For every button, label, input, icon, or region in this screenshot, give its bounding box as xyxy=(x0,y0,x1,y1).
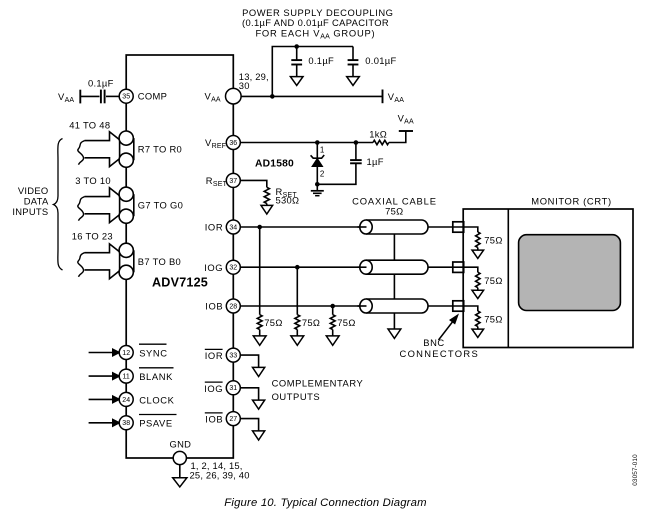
svg-text:DATA: DATA xyxy=(24,196,49,207)
svg-text:OUTPUTS: OUTPUTS xyxy=(272,391,321,402)
wire xyxy=(240,180,266,187)
resistor 75 ohm shunt xyxy=(330,315,355,330)
svg-text:SYNC: SYNC xyxy=(139,347,167,358)
svg-text:75Ω: 75Ω xyxy=(302,317,320,328)
node input arrow (PSAVE) xyxy=(89,419,120,426)
ground (shunt) xyxy=(332,330,334,336)
wire riser to decoupling rail xyxy=(272,47,353,97)
coax cable W2 xyxy=(358,260,429,274)
node complementary output arrow xyxy=(253,400,265,409)
svg-text:32: 32 xyxy=(229,265,237,272)
svg-text:30: 30 xyxy=(239,80,250,91)
svg-text:1µF: 1µF xyxy=(367,156,384,167)
BNC connector J2 xyxy=(453,262,464,272)
wire IOB line xyxy=(240,304,477,309)
wire (75 ohm shunt branch) xyxy=(296,267,298,315)
pin 36 VREF xyxy=(205,136,240,150)
node bus arrow 3 TO 10 xyxy=(75,175,131,223)
svg-text:COMPLEMENTARY: COMPLEMENTARY xyxy=(272,378,364,389)
svg-text:AD1580: AD1580 xyxy=(255,159,294,170)
svg-text:24: 24 xyxy=(122,397,130,404)
diode D1 AD1580 zener xyxy=(255,143,325,185)
svg-text:0.01µF: 0.01µF xyxy=(365,55,396,66)
svg-text:36: 36 xyxy=(229,140,237,147)
ground (shunt) xyxy=(296,330,298,336)
svg-text:INPUTS: INPUTS xyxy=(12,206,48,217)
svg-text:03057-010: 03057-010 xyxy=(632,454,639,486)
node VAA terminal (COMP side) xyxy=(58,90,80,104)
svg-text:IOB: IOB xyxy=(205,301,223,312)
svg-text:1kΩ: 1kΩ xyxy=(369,128,387,139)
BNC connector J1 xyxy=(453,222,464,232)
svg-text:ADV7125: ADV7125 xyxy=(152,276,208,290)
svg-text:35: 35 xyxy=(122,94,130,101)
svg-text:2: 2 xyxy=(320,169,325,178)
node VAA terminal (rail) xyxy=(383,90,405,104)
pin 27 IOBbar xyxy=(205,412,241,426)
svg-text:0.1µF: 0.1µF xyxy=(88,77,114,88)
wire (75 ohm shunt branch) xyxy=(259,227,261,315)
wire (75 ohm shunt branch) xyxy=(332,306,334,315)
wire xyxy=(106,95,119,97)
label video data inputs xyxy=(12,185,49,217)
svg-text:34: 34 xyxy=(229,224,237,231)
capacitor C4 1uF xyxy=(350,143,384,167)
svg-text:27: 27 xyxy=(229,416,237,423)
svg-text:75Ω: 75Ω xyxy=(385,206,403,217)
pin 32 IOG xyxy=(204,260,240,274)
svg-text:28: 28 xyxy=(229,303,237,310)
note: power supply decoupling text xyxy=(242,7,394,41)
svg-text:G7 TO G0: G7 TO G0 xyxy=(138,200,183,211)
svg-text:11: 11 xyxy=(123,374,130,381)
svg-text:75Ω: 75Ω xyxy=(484,275,502,286)
coax cable W3 xyxy=(358,299,429,313)
wire (complementary out) xyxy=(240,355,258,367)
label complementary outputs xyxy=(272,378,364,402)
ground (0.01uF) xyxy=(347,77,360,86)
resistor 75 ohm termination xyxy=(476,232,503,247)
wire coax shield xyxy=(393,234,395,329)
capacitor C1 0.1uF (COMP) xyxy=(88,77,114,103)
ground (shunt) xyxy=(259,330,261,336)
svg-text:Figure 10. Typical Connection: Figure 10. Typical Connection Diagram xyxy=(224,497,426,509)
coax cable W1 xyxy=(358,220,429,234)
node bus arrow 16 TO 23 xyxy=(72,231,132,279)
wire VAA rail xyxy=(241,94,382,99)
pin 11 BLANK xyxy=(119,368,173,383)
BNC connector J3 xyxy=(453,301,464,311)
wire (monitor input) xyxy=(464,306,478,311)
wire (complementary out) xyxy=(240,388,258,400)
svg-text:IOG: IOG xyxy=(204,262,223,273)
pin 24 CLOCK xyxy=(119,392,174,406)
resistor RSET 530 ohm xyxy=(264,186,299,206)
svg-text:IOR: IOR xyxy=(205,350,223,361)
brace (video inputs) xyxy=(54,139,63,271)
svg-text:IOR: IOR xyxy=(205,222,223,233)
svg-text:530Ω: 530Ω xyxy=(276,195,300,206)
svg-text:75Ω: 75Ω xyxy=(484,235,502,246)
node input arrow (SYNC) xyxy=(89,349,120,356)
label BNC connectors with arrow xyxy=(400,315,480,360)
svg-text:1: 1 xyxy=(320,146,325,155)
svg-text:PSAVE: PSAVE xyxy=(139,418,173,429)
svg-text:75Ω: 75Ω xyxy=(264,317,282,328)
wire (complementary out) xyxy=(240,419,258,431)
node VAA terminal (1k) xyxy=(398,112,414,131)
ground (termination) xyxy=(477,288,479,291)
svg-text:33: 33 xyxy=(229,353,237,360)
node complementary output arrow xyxy=(253,367,265,376)
pin 31 IOGbar xyxy=(204,381,240,395)
pin 33 IORbar xyxy=(205,348,241,362)
capacitor C3 0.01uF decoupling xyxy=(348,47,397,77)
resistor 75 ohm termination xyxy=(476,311,503,327)
svg-text:IOB: IOB xyxy=(205,414,223,425)
node input arrow (CLOCK) xyxy=(89,396,120,403)
node input arrow (BLANK) xyxy=(89,372,120,379)
label coaxial cable xyxy=(352,196,437,217)
resistor 1k ohm xyxy=(369,128,389,144)
pin GND (1,2,14,15,25,26,39,40) xyxy=(170,439,250,481)
node bus arrow 41 TO 48 xyxy=(69,119,131,166)
svg-text:MONITOR (CRT): MONITOR (CRT) xyxy=(531,196,612,207)
svg-text:CONNECTORS: CONNECTORS xyxy=(400,348,480,359)
resistor 75 ohm termination xyxy=(476,272,503,288)
CRT screen xyxy=(519,235,621,311)
svg-text:VIDEO: VIDEO xyxy=(18,185,49,196)
wire IOG line xyxy=(240,265,477,270)
ground (termination) xyxy=(477,248,479,251)
node pin-group B7 TO B0 xyxy=(119,243,181,279)
svg-text:38: 38 xyxy=(122,420,130,427)
wire IOR line xyxy=(240,225,477,230)
pin 12 SYNC xyxy=(119,344,167,359)
svg-text:BLANK: BLANK xyxy=(139,371,173,382)
pin VAA (13,29,30) xyxy=(205,71,269,104)
ground (termination) xyxy=(477,327,479,330)
pin 37 RSET xyxy=(206,173,241,187)
wire to VAA terminal xyxy=(389,131,406,143)
svg-text:25, 26, 39, 40: 25, 26, 39, 40 xyxy=(190,469,250,480)
svg-text:GND: GND xyxy=(170,439,192,450)
wire (diode to cap bottom) xyxy=(315,163,356,186)
pin 34 IOR xyxy=(205,220,241,234)
svg-text:16 TO 23: 16 TO 23 xyxy=(72,231,113,242)
svg-text:CLOCK: CLOCK xyxy=(139,394,174,405)
svg-text:41 TO 48: 41 TO 48 xyxy=(69,119,110,130)
svg-text:BNC: BNC xyxy=(423,337,444,348)
ground (GND pin) xyxy=(173,465,187,487)
IC U1 ADV7125 video DAC body xyxy=(126,55,233,458)
ground (earth, AD1580) xyxy=(311,184,324,195)
svg-text:37: 37 xyxy=(229,178,237,185)
node pin-group R7 TO R0 xyxy=(119,131,182,167)
resistor 75 ohm shunt xyxy=(295,315,320,330)
wire xyxy=(80,95,99,97)
pin 28 IOB xyxy=(205,299,240,313)
svg-text:R7 TO R0: R7 TO R0 xyxy=(138,144,182,155)
capacitor C2 0.1uF decoupling xyxy=(291,44,334,76)
svg-text:3 TO 10: 3 TO 10 xyxy=(75,175,111,186)
ground (0.1uF) xyxy=(290,77,303,86)
svg-text:COMP: COMP xyxy=(138,91,167,102)
svg-text:0.1µF: 0.1µF xyxy=(308,55,334,66)
ground (RSET) xyxy=(266,204,268,206)
wire (monitor input) xyxy=(464,227,478,232)
wire (monitor input) xyxy=(464,267,478,272)
svg-text:IOG: IOG xyxy=(204,383,223,394)
node complementary output arrow xyxy=(253,431,265,440)
node pin-group G7 TO G0 xyxy=(119,187,183,223)
svg-text:75Ω: 75Ω xyxy=(484,314,502,325)
pin 35 COMP xyxy=(119,89,167,103)
monitor (CRT) box xyxy=(463,196,633,348)
ground (coax shield) xyxy=(388,329,401,338)
svg-text:12: 12 xyxy=(122,350,130,357)
pin 38 PSAVE xyxy=(119,415,176,430)
svg-text:75Ω: 75Ω xyxy=(337,317,355,328)
svg-text:B7 TO B0: B7 TO B0 xyxy=(138,256,181,267)
svg-text:31: 31 xyxy=(229,385,237,392)
resistor 75 ohm shunt xyxy=(257,315,282,330)
wire VREF xyxy=(240,140,373,145)
